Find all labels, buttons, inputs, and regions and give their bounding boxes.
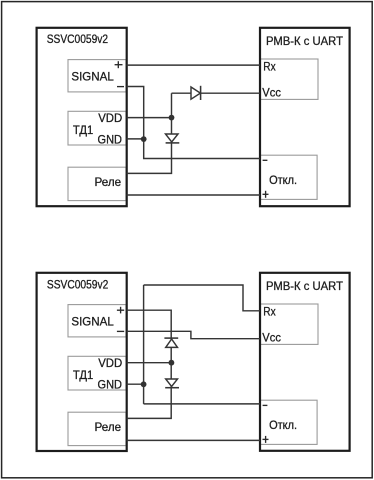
wire SIGNAL- to Vcc (bottom) <box>127 331 261 338</box>
wire GND bus to minus pin (bottom) <box>144 403 260 405</box>
wire GND stub (bottom) <box>127 383 144 385</box>
wire VDD stub (top) <box>127 117 172 119</box>
svg-text:РМВ-К с UART: РМВ-К с UART <box>266 34 343 48</box>
svg-text:Vcc: Vcc <box>262 85 281 99</box>
wire Rele bottom to plus pin (bottom) <box>127 439 261 441</box>
svg-text:VDD: VDD <box>98 356 122 370</box>
diode D1 horizontal (top, anode left) <box>191 86 201 100</box>
module U2 outline (top) <box>260 28 350 206</box>
module U1 SSVC0059v2 (top) <box>37 28 127 206</box>
pin + of SIGNAL (top) <box>115 61 123 68</box>
block TD1 (U3 bottom) <box>68 356 126 390</box>
wire diode branch to Vcc (top) <box>172 92 261 94</box>
block SIGNAL (U3 bottom) <box>68 305 126 337</box>
pin + of Otkl (top) <box>263 191 269 198</box>
wire Rele bottom to plus pin (top) <box>127 194 261 196</box>
junction dot GND bus (bottom) <box>141 381 147 387</box>
svg-text:Откл.: Откл. <box>269 173 297 187</box>
svg-text:GND: GND <box>98 132 123 146</box>
svg-text:GND: GND <box>98 377 123 391</box>
wire SIGNAL+ down through diodes to Rele top (bottom) <box>127 310 172 418</box>
wire GND vertical bus (bottom) <box>143 285 145 404</box>
block TD1 (U1 top) <box>68 111 126 145</box>
block SIGNAL (U1 top) <box>68 60 126 92</box>
block Rx/Vcc (U2 top) <box>261 59 319 99</box>
wire GND bus over to Rx (bottom) <box>144 285 260 311</box>
wire SIGNAL+ to Rx (top) <box>127 64 261 66</box>
svg-text:Vcc: Vcc <box>262 330 281 344</box>
svg-text:Откл.: Откл. <box>269 418 297 432</box>
svg-text:Rx: Rx <box>263 305 276 319</box>
svg-text:Реле: Реле <box>95 420 122 434</box>
svg-text:SSVC0059v2: SSVC0059v2 <box>47 278 108 292</box>
junction dot VDD branch (top) <box>169 115 175 121</box>
wire SIGNAL- down to minus pin (top) <box>127 87 261 159</box>
svg-text:VDD: VDD <box>98 111 122 125</box>
diode D4 vertical (bottom, cathode down) <box>165 379 179 388</box>
pin - of Otkl (bottom) <box>263 404 268 406</box>
svg-text:SSVC0059v2: SSVC0059v2 <box>47 32 108 46</box>
module U4 PMB-K (bottom) <box>260 273 350 451</box>
module U1 outline (top) <box>37 28 127 206</box>
pin - of SIGNAL (bottom) <box>117 330 124 332</box>
block Rx/Vcc (U4 bottom) <box>261 304 319 344</box>
junction dot GND/minus (top) <box>141 136 147 142</box>
svg-text:ТД1: ТД1 <box>73 123 93 137</box>
svg-text:Rx: Rx <box>263 60 276 74</box>
block Otkl (U2 top) <box>260 155 317 199</box>
diode D2 vertical (top, cathode down) <box>166 134 180 143</box>
block Otkl (U4 bottom) <box>260 400 317 444</box>
pin + of SIGNAL (bottom) <box>117 307 124 314</box>
wire GND stub (top) <box>127 138 144 140</box>
module U4 outline (bottom) <box>260 273 350 451</box>
pin - of SIGNAL (top) <box>117 86 124 88</box>
diode D3 vertical (bottom, cathode up) <box>164 338 178 347</box>
pin + of Otkl (bottom) <box>263 436 269 443</box>
block Rele (U3 bottom) <box>68 412 126 445</box>
module U3 SSVC0059v2 (bottom) <box>37 273 127 451</box>
wire diode branch vertical to Rele top (top) <box>127 93 172 173</box>
wire VDD stub (bottom) <box>127 362 172 364</box>
junction dot VDD branch (bottom) <box>169 360 175 366</box>
module U3 outline (bottom) <box>37 273 127 451</box>
svg-text:Реле: Реле <box>95 175 122 189</box>
svg-text:ТД1: ТД1 <box>73 368 93 382</box>
block Rele (U1 top) <box>68 167 126 200</box>
svg-text:РМВ-К с UART: РМВ-К с UART <box>266 279 343 293</box>
module U2 PMB-K (top) <box>260 28 350 206</box>
svg-text:SIGNAL: SIGNAL <box>71 70 113 84</box>
svg-text:SIGNAL: SIGNAL <box>71 315 113 329</box>
pin - of Otkl (top) <box>263 159 268 161</box>
